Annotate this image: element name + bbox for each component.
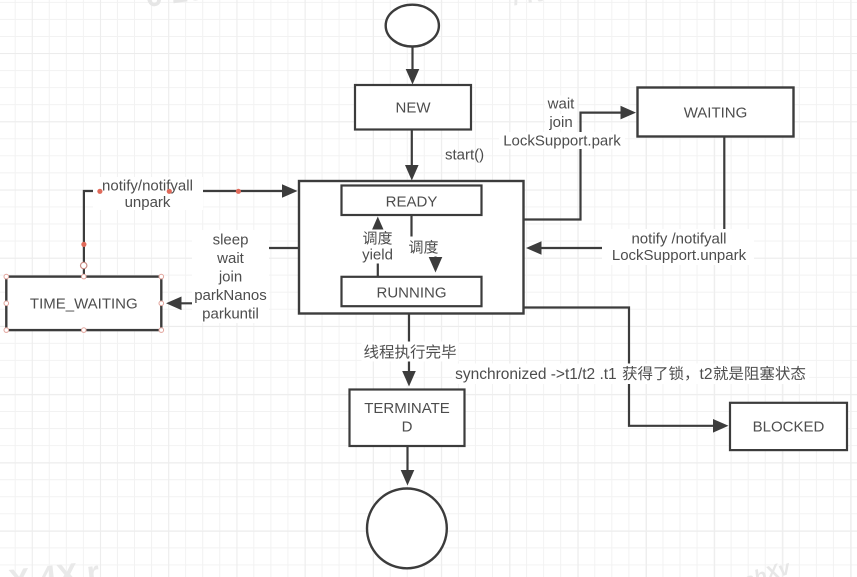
- svg-text:/ N N V A: / N N V A: [511, 0, 614, 11]
- state box BLOCKED: [730, 403, 847, 450]
- wire TERMINATED-to-end: [401, 446, 415, 486]
- svg-text:wait: wait: [547, 96, 576, 113]
- label start(): [445, 147, 484, 164]
- svg-text:join: join: [548, 114, 572, 131]
- watermark top-right: [511, 0, 614, 11]
- svg-text:sleep: sleep: [213, 232, 249, 249]
- wire NEW-to-RUNNABLE: [405, 130, 419, 181]
- svg-text:wait: wait: [216, 250, 245, 267]
- watermark top-left: [143, 0, 235, 14]
- state box NEW: [355, 85, 471, 130]
- svg-text:D: D: [402, 419, 413, 436]
- svg-text:join: join: [218, 268, 242, 285]
- label synchronized t1/t2 blocked-state: [452, 364, 809, 385]
- svg-text:parkuntil: parkuntil: [202, 305, 259, 322]
- label dispatch: [405, 237, 443, 257]
- svg-text:NEW: NEW: [396, 100, 432, 117]
- svg-text:parkNanos: parkNanos: [194, 287, 267, 304]
- svg-text:TIME_WAITING: TIME_WAITING: [30, 296, 138, 313]
- state box READY: [342, 186, 482, 216]
- svg-text:notify /notifyall: notify /notifyall: [631, 231, 726, 248]
- wire RUNNABLE-to-TIME_WAITING: [166, 248, 299, 310]
- endpoint handle: [81, 262, 87, 268]
- svg-text:notify/notifyall: notify/notifyall: [102, 178, 193, 195]
- start circle: [386, 5, 439, 47]
- state box TIME_WAITING: [6, 277, 161, 331]
- svg-text:BLOCKED: BLOCKED: [753, 419, 825, 436]
- waypoint dots: [81, 189, 241, 247]
- svg-text:t2: t2: [700, 366, 713, 383]
- svg-text:RUNNING: RUNNING: [377, 285, 447, 302]
- watermark bottom-right: [741, 556, 795, 577]
- wire RUNNING-to-READY: [371, 217, 385, 277]
- wire READY-to-RUNNING: [412, 215, 443, 272]
- state box TERMINATED: [350, 390, 465, 447]
- selection handles TIME_WAITING: [4, 274, 164, 332]
- label notify/notifyall unpark: [93, 177, 203, 211]
- svg-text:LockSupport.unpark: LockSupport.unpark: [612, 247, 747, 264]
- end circle: [367, 489, 447, 569]
- watermark bottom-left: [7, 554, 101, 577]
- label sleep wait join parkNanos parkuntil: [192, 230, 269, 323]
- label thread-finished: [362, 342, 459, 362]
- svg-text:start(): start(): [445, 147, 484, 164]
- wire RUNNABLE-to-BLOCKED: [524, 308, 729, 433]
- container box RUNNABLE: [299, 181, 524, 314]
- svg-text:unpark: unpark: [125, 194, 171, 211]
- wire TIME_WAITING-to-RUNNABLE: [84, 184, 298, 276]
- wire RUNNABLE-to-TERMINATED: [402, 314, 416, 387]
- svg-text:X 4X r: X 4X r: [7, 554, 101, 577]
- svg-text:synchronized ->t1/t2 .t1: synchronized ->t1/t2 .t1: [455, 366, 617, 383]
- svg-text:TERMINATE: TERMINATE: [364, 400, 450, 417]
- svg-text:yield: yield: [362, 247, 393, 264]
- svg-text:WAITING: WAITING: [684, 105, 748, 122]
- svg-text:LockSupport.park: LockSupport.park: [503, 133, 621, 150]
- wire RUNNABLE-to-WAITING: [524, 106, 637, 220]
- wire WAITING-to-RUNNABLE: [526, 137, 724, 255]
- wire start-to-NEW: [406, 47, 420, 85]
- svg-text:READY: READY: [386, 194, 438, 211]
- label notify/notifyall LockSupport.unpark: [602, 229, 754, 265]
- svg-text:abXv: abXv: [741, 556, 795, 577]
- state box WAITING: [638, 88, 794, 137]
- state box RUNNING: [342, 277, 482, 306]
- label yield: [361, 230, 395, 264]
- svg-text:0 10 C: 0 10 C: [143, 0, 235, 14]
- label wait join LockSupport.park: [499, 96, 625, 150]
